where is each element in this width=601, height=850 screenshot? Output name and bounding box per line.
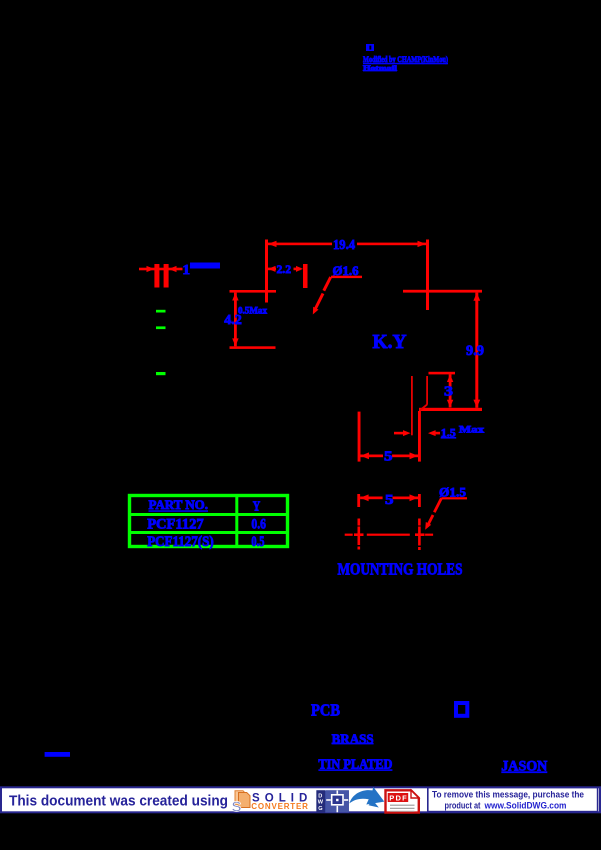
mounting holes: dim 5 right arrow: [410, 494, 419, 501]
dimension 4.2: top extension line: [230, 290, 277, 293]
mounting holes: right extension line: [418, 494, 421, 507]
DWG icon: [316, 790, 349, 812]
svg-text:5: 5: [385, 492, 394, 507]
svg-text:0.5: 0.5: [251, 534, 264, 550]
mounting holes: centerline dash 1: [345, 534, 353, 536]
dimension 2.2: right extension bar: [303, 264, 308, 288]
table: outer border: [130, 496, 288, 547]
leader Ø1.6: diagonal segment lower: [315, 294, 324, 311]
dimension 9.9: bottom arrow: [473, 400, 480, 408]
green tick 2: [156, 326, 166, 329]
svg-text:To remove this message, purcha: To remove this message, purchase the: [432, 790, 584, 801]
mounting holes: dim 5 line left segment: [360, 497, 383, 500]
svg-text:4.2: 4.2: [224, 312, 242, 327]
dimension 2.2: right stub: [294, 268, 301, 271]
pin left edge line: [411, 376, 413, 435]
SolidConverter logo: stacked pages: [235, 791, 250, 808]
svg-text:2.2: 2.2: [277, 262, 292, 276]
dimension 5 (pin): dim line left segment: [361, 455, 384, 458]
note text line 1 (underlined blue): [363, 54, 448, 64]
green tick 3: [156, 372, 166, 375]
dimension 19.4: right arrow: [418, 241, 427, 247]
pin right edge line: [426, 376, 428, 405]
mounting holes: left hole vertical dash below: [358, 547, 361, 550]
pin chamfer diagonal: [420, 405, 427, 411]
svg-text:PCF1127(S): PCF1127(S): [147, 534, 214, 550]
dimension 5 (pin): right extension line: [418, 411, 421, 462]
svg-text:PCB: PCB: [311, 701, 340, 720]
dimension 19.4: left arrow: [268, 241, 277, 247]
leader Ø1.6: arrowhead: [313, 307, 319, 315]
svg-text:CONVERTER: CONVERTER: [251, 802, 308, 811]
mounting holes: dim 5 line right segment: [393, 497, 419, 500]
dimension 19.4: line left segment: [268, 243, 332, 246]
svg-text:0.6: 0.6: [251, 517, 266, 533]
dimension 5 (pin): dim line right segment: [392, 455, 418, 458]
dimension 9.9: top arrow: [473, 293, 480, 301]
svg-text:www.SolidDWG.com: www.SolidDWG.com: [484, 800, 567, 811]
dimension 9.9: top extension line: [403, 290, 482, 293]
svg-text:0.5Max: 0.5Max: [238, 305, 267, 315]
svg-text:PCF1127: PCF1127: [147, 517, 204, 533]
svg-text:5: 5: [384, 449, 393, 464]
dimension 1.5: underline: [441, 437, 457, 439]
leader Ø1.6: diagonal segment upper: [324, 277, 331, 291]
dimension 2.2: left arrow: [268, 266, 276, 272]
watermark banner background: [1, 787, 600, 812]
dimension 1.5: right arrow: [428, 430, 436, 436]
leader Ø1.5: horizontal line: [441, 497, 467, 499]
svg-text:Y: Y: [253, 500, 260, 515]
banner right box: [428, 788, 598, 812]
note icon (top-right blue square): [366, 44, 374, 51]
leader Ø1.5: diagonal upper: [434, 498, 441, 512]
mounting holes: right hole center vertical dash above: [418, 519, 421, 526]
dimension 4.2: bottom extension line: [230, 346, 276, 349]
svg-text:3: 3: [444, 385, 453, 400]
svg-text:Max: Max: [459, 425, 484, 435]
table: row divider 1: [130, 513, 288, 516]
mounting holes: left hole horizontal: [354, 533, 364, 536]
svg-text:9.9: 9.9: [466, 343, 484, 359]
mounting holes: left hole center vertical dash above: [358, 519, 361, 526]
svg-text:S: S: [232, 799, 242, 816]
extension line A (x=266): [265, 240, 268, 303]
dimension 9.9: vertical dim line: [475, 293, 478, 408]
dimension "1": extension bar right: [164, 264, 169, 288]
svg-text:K.Y: K.Y: [373, 332, 407, 353]
leader Ø1.5: diagonal lower: [427, 515, 433, 526]
dimension 3: bottom arrow: [447, 400, 453, 408]
mounting holes: left hole vertical: [358, 527, 361, 546]
dimension 3: top arrow: [447, 374, 453, 382]
dimension 5 (pin): left arrow: [361, 452, 370, 459]
missing-glyph box: [456, 703, 467, 716]
dimension 2.2: left stub: [268, 268, 276, 271]
dimension "1": left arrow: [147, 266, 155, 272]
small blue bar (illegible note): [45, 752, 70, 757]
mounting holes: centerline dash 2: [367, 534, 410, 536]
svg-text:PDF: PDF: [389, 794, 407, 803]
svg-text:TIN PLATED: TIN PLATED: [318, 757, 392, 772]
mounting holes: right hole horizontal: [415, 533, 425, 536]
svg-text:MOUNTING HOLES: MOUNTING HOLES: [338, 559, 463, 578]
dimension "1": tolerance text (blue bar): [190, 263, 220, 269]
mounting holes: right hole vertical dash below: [418, 547, 421, 550]
dimension 1.5: right stub: [435, 432, 440, 435]
svg-text:product at: product at: [445, 800, 482, 811]
dimension 2.2: right arrow: [296, 266, 303, 272]
arrow swoosh: [349, 787, 384, 808]
dimension 4.2: vertical dim line: [234, 293, 237, 347]
note text line 2 (underlined blue): [363, 63, 397, 72]
svg-text:This document was created usin: This document was created using: [9, 793, 228, 810]
dimension "1": extension bar left: [154, 264, 159, 288]
dimension 5 (pin): right arrow: [410, 452, 419, 459]
svg-text:19.4: 19.4: [333, 238, 355, 253]
leader Ø1.5: arrowhead: [425, 522, 431, 530]
svg-text:G: G: [318, 806, 322, 812]
mounting holes: left extension line: [357, 494, 360, 507]
dimension 4.2: bottom arrow: [232, 338, 238, 346]
svg-text:W: W: [318, 800, 324, 806]
green tick 1: [156, 310, 166, 313]
table: column divider: [235, 496, 238, 547]
dimension 9.9: bottom body line: [419, 408, 482, 411]
dimension 5 (pin): left extension line: [358, 412, 361, 462]
dimension 19.4: line right segment: [357, 243, 426, 246]
leader Ø1.6: horizontal line: [331, 276, 362, 278]
dimension 3: top extension line: [429, 372, 456, 375]
extension line B (x=427): [426, 240, 429, 311]
mounting holes: right hole vertical: [418, 527, 421, 546]
dimension 3: vertical dim line: [449, 374, 452, 407]
dimension 1.5: left stub: [394, 432, 404, 435]
table: row divider 2: [130, 531, 288, 534]
dimension 4.2: top arrow: [232, 293, 238, 301]
svg-text:PART NO.: PART NO.: [149, 498, 209, 512]
dimension "1" pin-width: wire: [139, 268, 183, 271]
svg-text:1: 1: [182, 262, 190, 277]
mounting holes: centerline dash 3: [425, 534, 433, 536]
PDF icon: [386, 790, 419, 812]
dimension 1.5: left arrow: [403, 430, 411, 436]
mounting holes: dim 5 left arrow: [360, 494, 369, 501]
dimension "1": right arrow: [169, 266, 177, 272]
